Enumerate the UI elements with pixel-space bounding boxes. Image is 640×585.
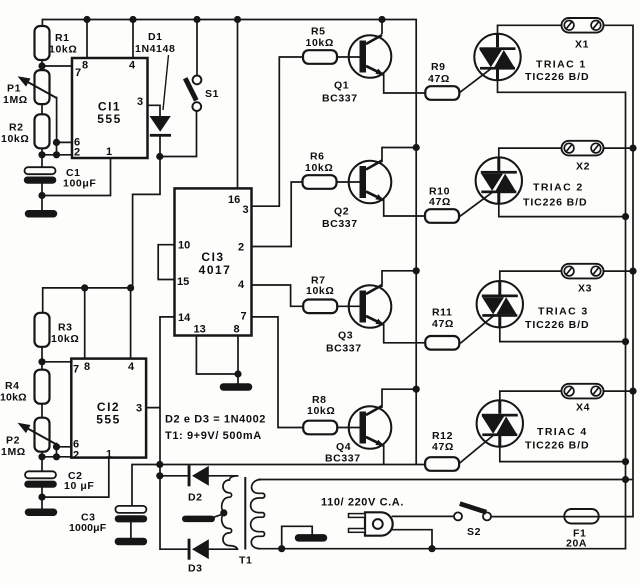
svg-text:10kΩ: 10kΩ: [307, 405, 335, 417]
svg-text:R1: R1: [55, 32, 70, 44]
svg-text:R9: R9: [431, 61, 446, 73]
svg-text:TIC226 B/D: TIC226 B/D: [523, 196, 587, 208]
svg-text:TRIAC 4: TRIAC 4: [537, 426, 588, 438]
svg-text:Q1: Q1: [334, 80, 349, 92]
svg-text:1MΩ: 1MΩ: [1, 446, 26, 458]
svg-text:4: 4: [238, 279, 245, 291]
svg-text:10kΩ: 10kΩ: [49, 44, 77, 56]
svg-text:1MΩ: 1MΩ: [3, 94, 28, 106]
svg-text:10kΩ: 10kΩ: [306, 37, 334, 49]
svg-text:47Ω: 47Ω: [429, 196, 451, 208]
svg-text:3: 3: [243, 204, 249, 216]
svg-text:R3: R3: [58, 322, 73, 334]
svg-text:16: 16: [228, 194, 240, 206]
svg-text:7: 7: [241, 311, 247, 323]
svg-text:10kΩ: 10kΩ: [1, 133, 29, 145]
svg-text:7: 7: [75, 67, 81, 79]
svg-text:14: 14: [178, 312, 191, 324]
svg-text:TIC226 B/D: TIC226 B/D: [525, 71, 589, 83]
svg-text:1: 1: [106, 449, 112, 461]
svg-text:15: 15: [177, 276, 189, 288]
svg-text:S1: S1: [205, 88, 219, 100]
svg-text:CI3: CI3: [201, 250, 224, 264]
svg-text:TIC226 B/D: TIC226 B/D: [525, 319, 589, 331]
svg-text:BC337: BC337: [322, 93, 358, 105]
svg-text:10 μF: 10 μF: [64, 480, 94, 492]
svg-text:3: 3: [136, 403, 142, 415]
svg-text:D3: D3: [188, 563, 203, 575]
svg-text:4017: 4017: [199, 263, 232, 277]
svg-text:D2: D2: [188, 492, 203, 504]
svg-text:8: 8: [234, 324, 240, 336]
svg-text:3: 3: [137, 96, 143, 108]
svg-text:2: 2: [73, 450, 79, 462]
svg-text:P1: P1: [7, 83, 21, 95]
svg-text:7: 7: [73, 364, 79, 376]
svg-text:4: 4: [129, 60, 136, 72]
svg-text:T1: 9+9V/ 500mA: T1: 9+9V/ 500mA: [165, 430, 262, 442]
svg-text:1N4148: 1N4148: [135, 43, 175, 55]
svg-text:BC337: BC337: [326, 342, 362, 354]
svg-text:D2 e D3 = 1N4002: D2 e D3 = 1N4002: [165, 414, 266, 426]
svg-text:555: 555: [97, 112, 122, 126]
svg-text:1000μF: 1000μF: [69, 522, 107, 534]
svg-text:Q3: Q3: [338, 330, 353, 342]
svg-text:Q4: Q4: [336, 441, 351, 453]
svg-text:10kΩ: 10kΩ: [306, 285, 334, 297]
svg-text:BC337: BC337: [322, 218, 358, 230]
svg-text:100μF: 100μF: [63, 178, 96, 190]
svg-text:2: 2: [238, 242, 244, 254]
svg-text:TRIAC 1: TRIAC 1: [536, 59, 587, 71]
svg-text:555: 555: [96, 413, 121, 427]
svg-text:20A: 20A: [566, 538, 587, 550]
svg-text:R6: R6: [310, 151, 325, 163]
svg-text:13: 13: [194, 324, 206, 336]
svg-text:4: 4: [128, 361, 135, 373]
svg-text:X3: X3: [578, 283, 592, 295]
svg-text:Q2: Q2: [334, 206, 349, 218]
svg-text:X2: X2: [576, 161, 590, 173]
svg-text:47Ω: 47Ω: [428, 73, 450, 85]
svg-text:2: 2: [74, 147, 80, 159]
svg-text:10: 10: [178, 240, 190, 252]
svg-text:T1: T1: [239, 555, 252, 567]
svg-text:R5: R5: [311, 26, 326, 38]
svg-text:X1: X1: [575, 39, 589, 51]
svg-text:8: 8: [82, 60, 88, 72]
svg-text:TIC226 B/D: TIC226 B/D: [525, 440, 589, 452]
svg-text:S2: S2: [467, 526, 481, 538]
svg-text:BC337: BC337: [325, 453, 361, 465]
svg-text:X4: X4: [576, 402, 590, 414]
svg-text:8: 8: [84, 361, 90, 373]
svg-text:R4: R4: [5, 380, 20, 392]
svg-text:R2: R2: [9, 122, 24, 134]
svg-text:P2: P2: [6, 435, 20, 447]
svg-text:TRIAC 3: TRIAC 3: [538, 306, 589, 318]
svg-text:TRIAC 2: TRIAC 2: [533, 182, 584, 194]
svg-text:10kΩ: 10kΩ: [51, 333, 79, 345]
svg-text:10kΩ: 10kΩ: [305, 162, 333, 174]
svg-text:47Ω: 47Ω: [432, 441, 454, 453]
svg-text:47Ω: 47Ω: [432, 318, 454, 330]
svg-text:D1: D1: [148, 31, 163, 43]
svg-text:R11: R11: [432, 307, 452, 319]
svg-text:1: 1: [106, 146, 112, 158]
svg-text:10kΩ: 10kΩ: [0, 392, 27, 404]
svg-text:110/ 220V C.A.: 110/ 220V C.A.: [321, 497, 404, 509]
